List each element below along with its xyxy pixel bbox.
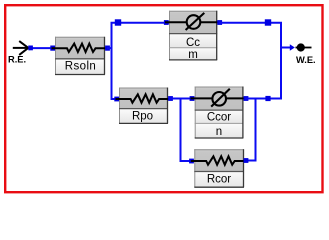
node — [28, 46, 33, 51]
wire to W.E. — [281, 47, 290, 49]
arrowhead — [290, 44, 295, 50]
wire — [245, 98, 281, 100]
node — [105, 46, 110, 51]
node — [115, 19, 121, 25]
node — [50, 46, 55, 51]
svg-text:Cc: Cc — [186, 37, 200, 49]
wire — [112, 23, 170, 99]
resistor Rpo — [116, 88, 172, 124]
node — [217, 20, 222, 25]
svg-text:m: m — [188, 49, 198, 61]
svg-text:W.E.: W.E. — [296, 55, 316, 65]
wire — [31, 47, 55, 49]
node — [114, 97, 119, 102]
CPE Ccor — [191, 87, 248, 139]
wire drop right — [244, 99, 256, 161]
wire — [219, 23, 281, 100]
node — [265, 19, 271, 25]
svg-text:Rcor: Rcor — [207, 174, 231, 186]
node — [244, 158, 249, 163]
svg-text:R.E.: R.E. — [8, 55, 26, 65]
node — [164, 20, 169, 25]
node — [189, 159, 194, 164]
node — [190, 96, 195, 101]
node — [265, 96, 270, 101]
CPE Cc — [165, 11, 221, 61]
wire drop left — [181, 99, 195, 162]
svg-text:n: n — [216, 126, 222, 138]
resistor Rcor — [191, 149, 248, 187]
node — [168, 96, 173, 101]
svg-text:Rsoln: Rsoln — [65, 61, 96, 73]
svg-text:Rpo: Rpo — [132, 111, 153, 123]
wire — [107, 47, 113, 49]
electrode R.E. — [8, 41, 31, 65]
node — [244, 96, 249, 101]
terminal W.E. — [296, 43, 316, 65]
wire — [169, 98, 194, 100]
svg-text:Ccor: Ccor — [207, 112, 231, 124]
resistor Rsoln — [52, 37, 109, 75]
